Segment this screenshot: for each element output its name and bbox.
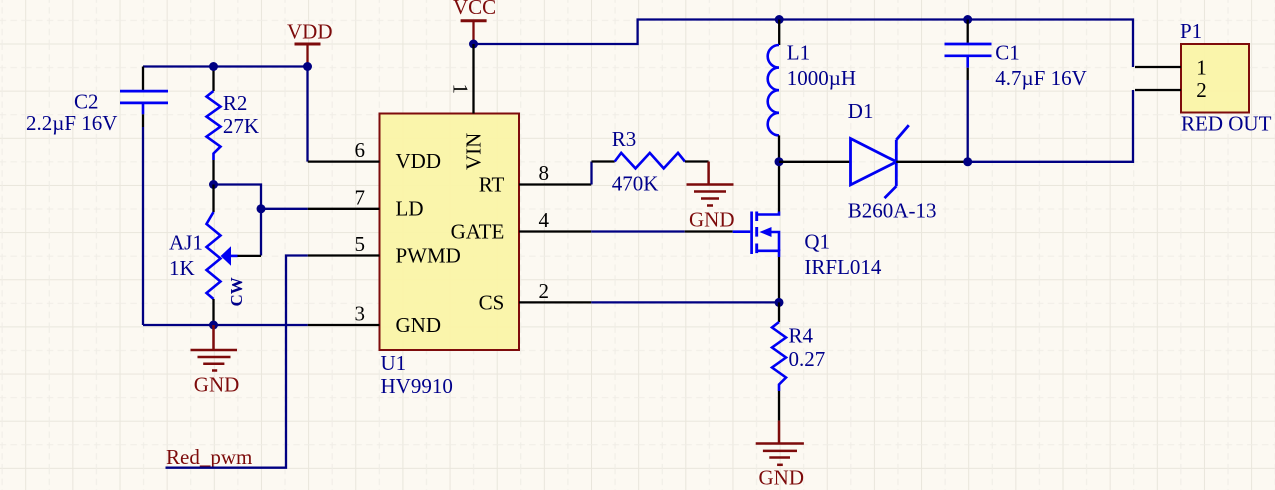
- svg-text:3: 3: [355, 302, 366, 326]
- svg-text:2: 2: [1196, 78, 1207, 102]
- U1 pin 5 PWMD: [308, 254, 380, 256]
- U1 pin 2 CS: [519, 301, 591, 303]
- svg-text:Red_pwm: Red_pwm: [166, 445, 252, 469]
- junction dot CS node: [775, 298, 784, 307]
- U1 pin 8 RT: [519, 183, 591, 185]
- svg-text:C2: C2: [74, 90, 99, 114]
- wire Red_pwm to pin 5: [166, 256, 308, 468]
- junction dot C1 bottom: [963, 157, 972, 166]
- svg-text:VDD: VDD: [287, 20, 333, 44]
- svg-text:1: 1: [449, 84, 473, 95]
- connector P1: [1135, 19, 1272, 136]
- inductor L1: [768, 20, 856, 162]
- svg-text:P1: P1: [1180, 19, 1202, 43]
- svg-text:B260A-13: B260A-13: [848, 199, 937, 223]
- resistor R4: [772, 302, 825, 420]
- svg-text:L1: L1: [787, 41, 810, 65]
- svg-text:5: 5: [355, 232, 366, 256]
- svg-text:8: 8: [539, 161, 550, 185]
- wire pin 2 to CS node: [591, 301, 779, 303]
- power port VDD: [295, 44, 321, 67]
- junction dot L1 top: [775, 15, 784, 24]
- svg-text:D1: D1: [848, 99, 874, 123]
- ground GND1: [191, 325, 238, 371]
- svg-text:4.7µF 16V: 4.7µF 16V: [995, 66, 1086, 90]
- svg-text:IRFL014: IRFL014: [804, 255, 882, 279]
- junction dot L1 bottom: [775, 157, 784, 166]
- svg-text:VIN: VIN: [461, 133, 485, 170]
- wire pin 4 to gate: [591, 230, 684, 232]
- junction dot LD tee: [257, 204, 266, 213]
- svg-text:GND: GND: [194, 373, 240, 397]
- svg-text:LD: LD: [396, 197, 424, 221]
- wire VCC top rail: [474, 20, 1134, 68]
- svg-text:4: 4: [539, 208, 550, 232]
- wire R2 bottom to wiper riser: [214, 185, 262, 256]
- svg-text:R3: R3: [612, 127, 637, 151]
- capacitor C1: [945, 20, 1087, 162]
- wire C2 down leg: [142, 127, 144, 325]
- svg-text:R2: R2: [223, 91, 248, 115]
- svg-text:CS: CS: [479, 290, 505, 314]
- resistor R3: [592, 127, 709, 196]
- wire top-left rail: [143, 65, 308, 67]
- wire pin 8 to R3: [590, 162, 592, 185]
- ic U1 HV9910 body: [380, 114, 520, 351]
- svg-text:RT: RT: [479, 173, 505, 197]
- wire VDD to pin 6: [306, 67, 308, 162]
- svg-text:GND: GND: [759, 466, 805, 490]
- resistor R2: [207, 67, 260, 185]
- wire wiper stub: [231, 255, 238, 258]
- junction dot R2 bottom: [209, 180, 218, 189]
- junction dot R2 top: [209, 62, 218, 71]
- svg-text:1K: 1K: [169, 256, 195, 280]
- svg-text:AJ1: AJ1: [169, 231, 203, 255]
- svg-text:C1: C1: [995, 41, 1020, 65]
- junction dot C1 top: [963, 15, 972, 24]
- junction dot VCC: [469, 40, 478, 49]
- ground GND2: [687, 162, 734, 206]
- wire D1 to P1 leg: [968, 90, 1133, 162]
- junction dot VDD: [303, 62, 312, 71]
- transistor Q1: [733, 212, 882, 280]
- svg-text:GATE: GATE: [451, 219, 505, 243]
- wire drain up: [778, 162, 780, 212]
- svg-text:PWMD: PWMD: [396, 244, 461, 268]
- U1 pin 6 VDD: [308, 160, 380, 162]
- svg-text:CW: CW: [227, 277, 246, 306]
- svg-text:R4: R4: [789, 324, 814, 348]
- U1 pin 1 VIN top: [472, 44, 474, 114]
- U1 pin 7 LD: [308, 208, 380, 210]
- wire bottom rail: [143, 324, 308, 326]
- diode D1: [821, 99, 968, 223]
- wire to pin 7: [261, 208, 308, 210]
- svg-text:0.27: 0.27: [789, 347, 826, 371]
- svg-text:470K: 470K: [612, 172, 659, 196]
- potentiometer AJ1: [169, 185, 246, 326]
- svg-text:VCC: VCC: [453, 0, 496, 19]
- svg-text:1: 1: [1196, 56, 1207, 80]
- svg-text:6: 6: [355, 138, 366, 162]
- svg-text:1000µH: 1000µH: [787, 66, 856, 90]
- svg-text:27K: 27K: [223, 114, 259, 138]
- svg-text:GND: GND: [689, 208, 735, 232]
- svg-text:2: 2: [539, 279, 550, 303]
- wire source down: [778, 257, 780, 302]
- svg-text:RED OUT: RED OUT: [1181, 112, 1272, 136]
- capacitor C2: [26, 67, 168, 136]
- svg-text:Q1: Q1: [804, 230, 830, 254]
- wire L1 to D1: [779, 161, 821, 163]
- U1 pin 3 GND: [308, 324, 380, 326]
- U1 pin 4 GATE: [519, 230, 591, 232]
- svg-text:2.2µF 16V: 2.2µF 16V: [26, 111, 117, 135]
- svg-text:GND: GND: [396, 313, 442, 337]
- svg-text:HV9910: HV9910: [381, 374, 453, 398]
- svg-text:U1: U1: [381, 351, 407, 375]
- ground GND3: [756, 421, 804, 465]
- svg-text:7: 7: [355, 185, 366, 209]
- power port VCC: [461, 21, 487, 44]
- svg-text:VDD: VDD: [396, 149, 442, 173]
- junction dot GND rail: [209, 321, 218, 330]
